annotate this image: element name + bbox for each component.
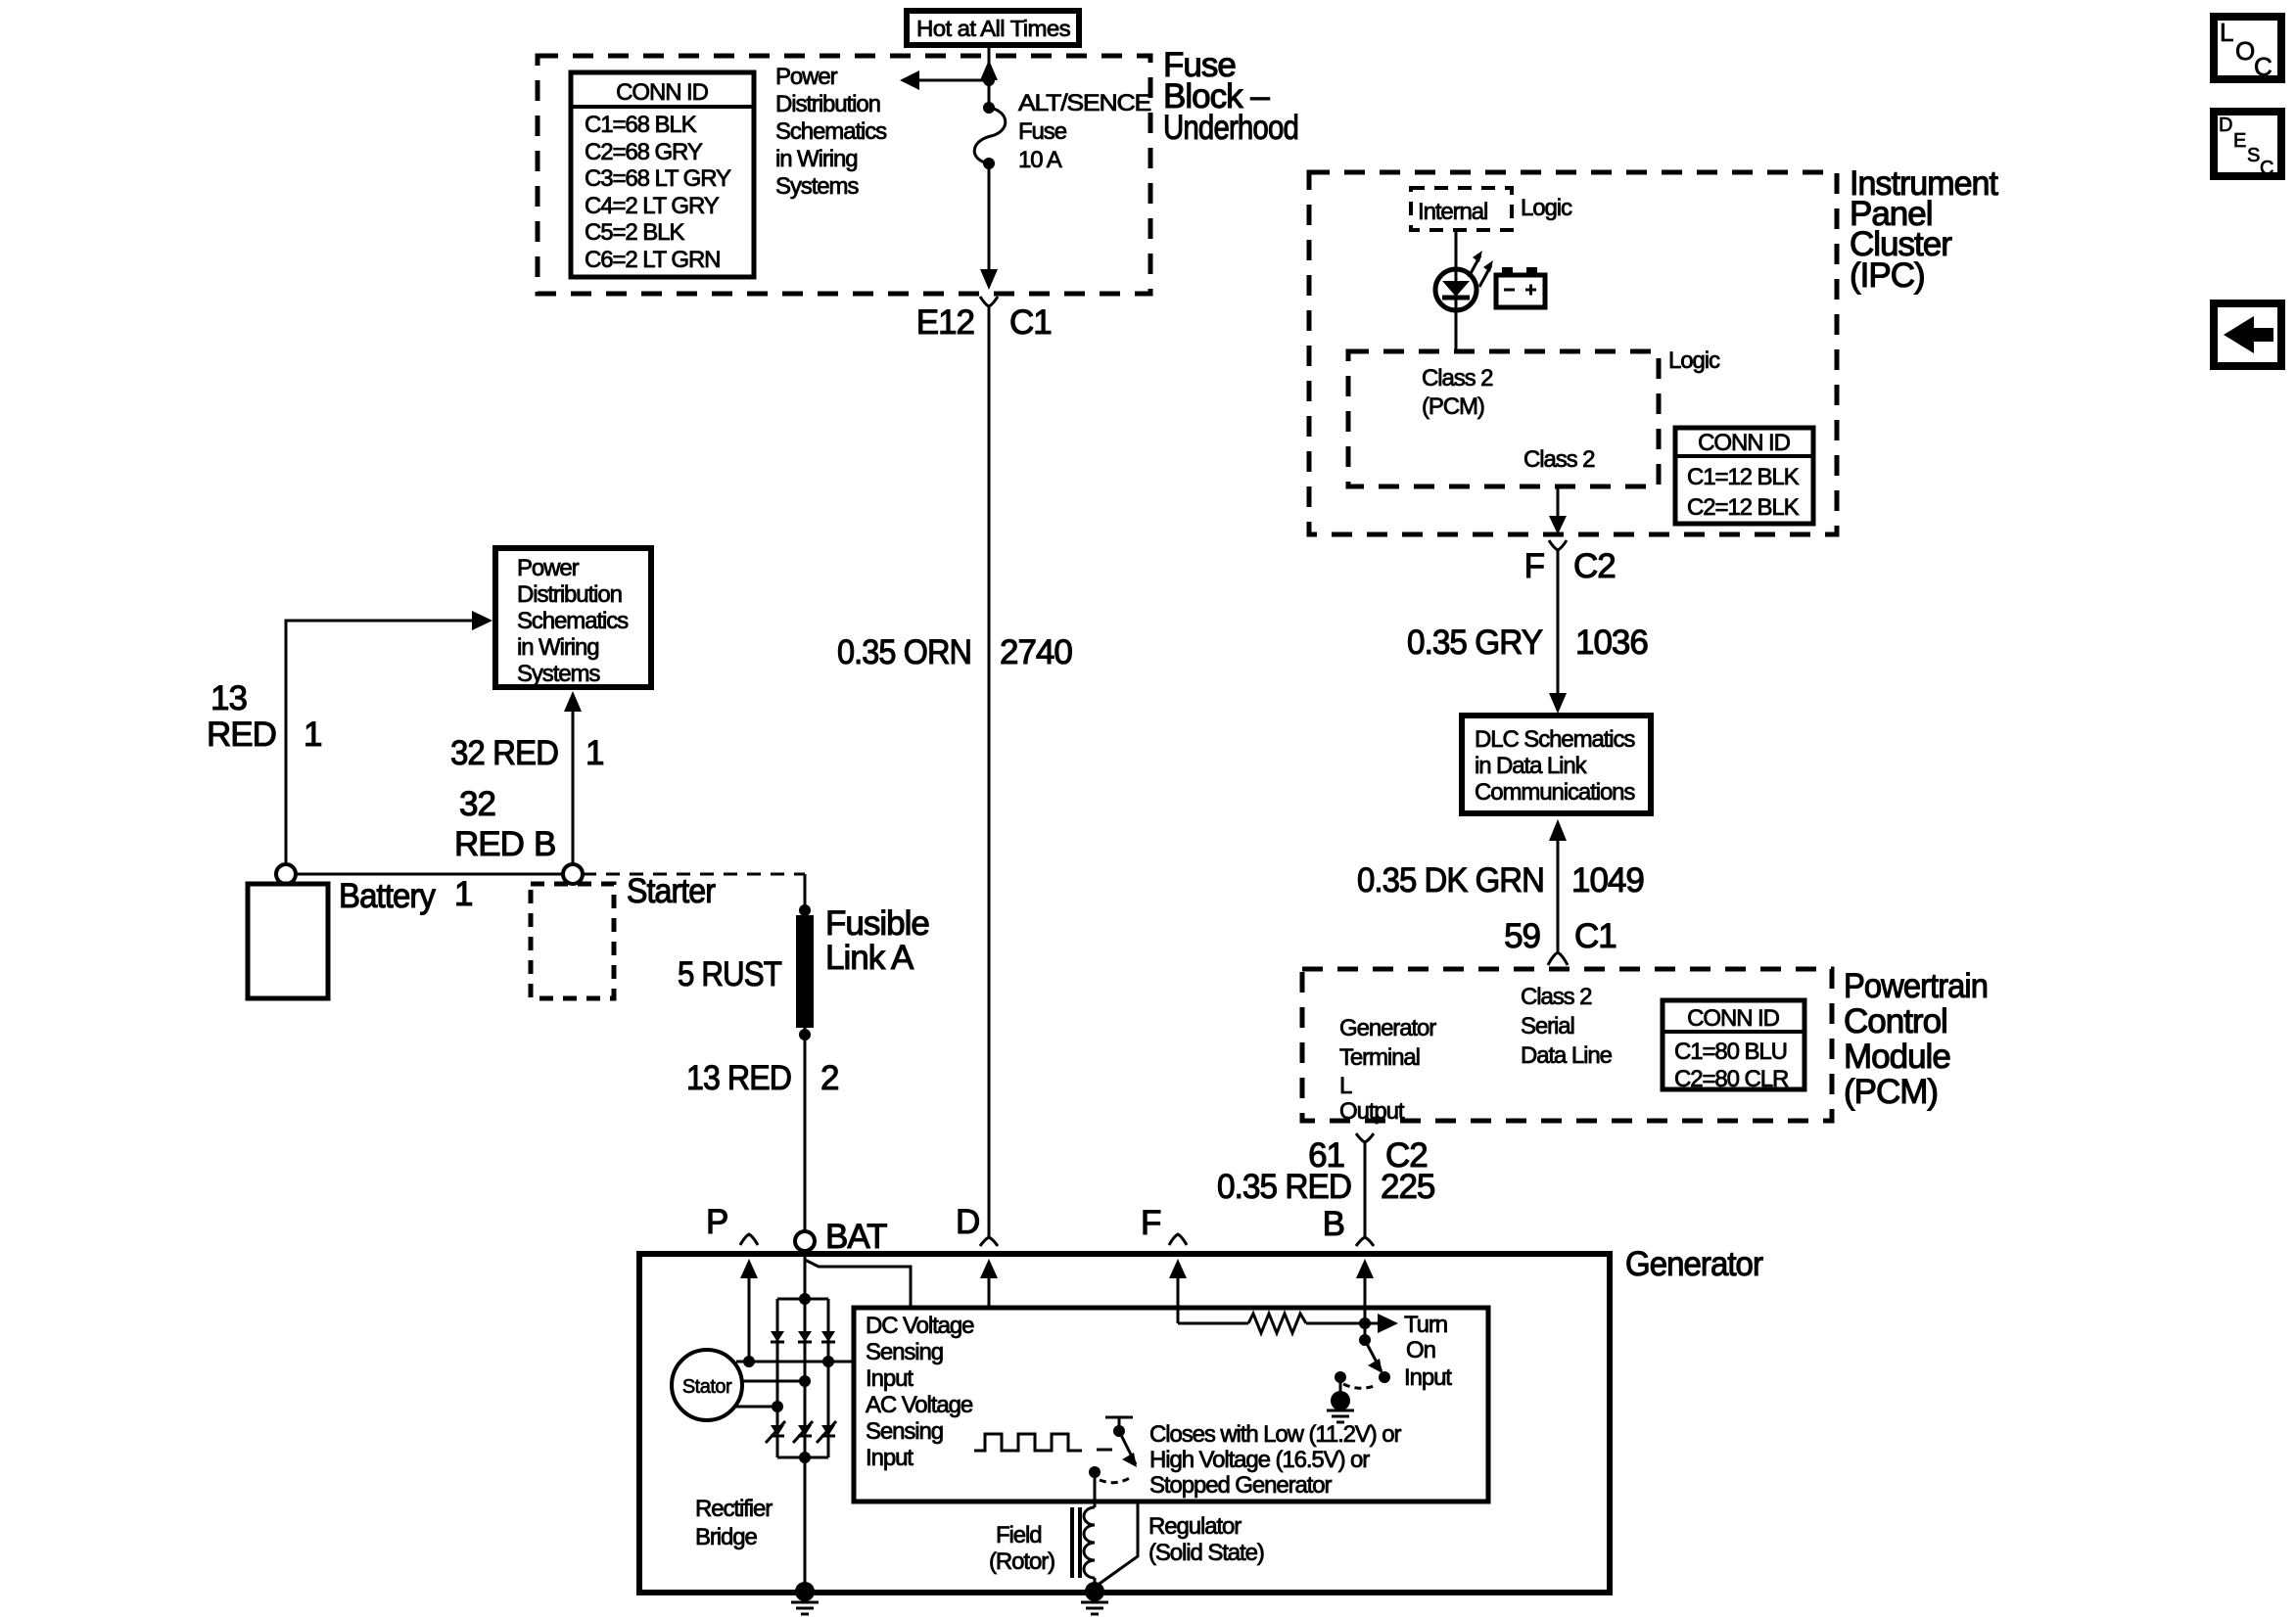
svg-text:Module: Module xyxy=(1844,1038,1950,1076)
svg-text:Communications: Communications xyxy=(1475,779,1635,806)
svg-text:C2=68 GRY: C2=68 GRY xyxy=(585,139,703,165)
comparator switch (closes with low/high voltage) xyxy=(1105,1416,1133,1419)
wire: BAT branch to regulator DC sense xyxy=(805,1260,911,1308)
stator phase wires xyxy=(736,1361,854,1363)
node: B / turn-on junction xyxy=(1359,1317,1371,1329)
CONN ID table (PCM) xyxy=(1663,1000,1804,1092)
svg-text:Class 2: Class 2 xyxy=(1523,446,1595,473)
wire: BAT down to ground xyxy=(804,1251,807,1590)
svg-text:32 RED: 32 RED xyxy=(450,734,558,772)
node: battery positive terminal xyxy=(276,864,296,884)
svg-text:Class 2: Class 2 xyxy=(1422,365,1493,392)
svg-text:(Solid State): (Solid State) xyxy=(1148,1540,1264,1566)
svg-text:S: S xyxy=(2247,145,2260,166)
svg-text:CONN ID: CONN ID xyxy=(1687,1005,1779,1032)
wire label 0.35 RED | 225 xyxy=(1217,1168,1434,1206)
stator xyxy=(672,1350,742,1420)
label closes with xyxy=(1149,1421,1402,1499)
regulator (solid state) box xyxy=(854,1308,1488,1501)
svg-text:C4=2 LT GRY: C4=2 LT GRY xyxy=(585,193,720,219)
label class 2 serial data line xyxy=(1521,984,1613,1069)
svg-text:(PCM): (PCM) xyxy=(1422,393,1484,420)
regulator ground leg xyxy=(1097,1501,1138,1586)
fuse block underhood dashed box xyxy=(538,56,1150,294)
svg-text:0.35 RED: 0.35 RED xyxy=(1217,1168,1351,1206)
svg-text:(Rotor): (Rotor) xyxy=(989,1548,1054,1575)
svg-text:Generator: Generator xyxy=(1625,1245,1763,1283)
svg-text:Distribution: Distribution xyxy=(517,581,622,608)
svg-text:C2: C2 xyxy=(1573,547,1616,585)
svg-text:Stopped Generator: Stopped Generator xyxy=(1149,1472,1333,1499)
svg-text:in Wiring: in Wiring xyxy=(775,146,857,172)
wire: 0.35 DK GRN 1049 (PCM to DLC) xyxy=(1549,819,1567,841)
turn-on switch xyxy=(1359,1334,1371,1346)
svg-text:B: B xyxy=(1323,1205,1344,1243)
svg-text:Link A: Link A xyxy=(825,939,914,977)
label Fusible Link A xyxy=(825,904,929,977)
svg-text:0.35 GRY: 0.35 GRY xyxy=(1407,624,1543,662)
label generator terminal L output xyxy=(1339,1015,1436,1125)
svg-text:Generator: Generator xyxy=(1339,1015,1436,1041)
svg-text:Battery: Battery xyxy=(339,877,436,915)
fuse block label xyxy=(1163,46,1298,147)
svg-text:Logic: Logic xyxy=(1668,347,1720,374)
diodes (top row) xyxy=(771,1331,784,1342)
wire: 0.35 ORN 2740 (fuse to generator D) xyxy=(988,306,991,1236)
node: fuse top junction xyxy=(983,74,995,86)
label: 32 RED B xyxy=(454,785,555,863)
wire: 32 RED 1 (starter junction up to power distribution) xyxy=(572,709,575,864)
battery xyxy=(248,884,328,998)
svg-text:59: 59 xyxy=(1504,917,1540,955)
svg-text:1: 1 xyxy=(586,734,603,772)
svg-text:D: D xyxy=(956,1203,979,1241)
internal dashed box xyxy=(1411,188,1512,230)
connector E12/C1 xyxy=(980,297,998,306)
svg-text:Sensing: Sensing xyxy=(866,1339,943,1365)
CONN ID table (IPC) xyxy=(1675,428,1813,524)
svg-text:10 A: 10 A xyxy=(1018,147,1062,173)
pin label 61 | C2 xyxy=(1308,1136,1428,1175)
power distribution box (left) xyxy=(495,548,651,687)
svg-text:DLC Schematics: DLC Schematics xyxy=(1475,726,1635,753)
svg-text:E: E xyxy=(2233,130,2246,152)
svg-text:Turn: Turn xyxy=(1404,1312,1447,1338)
field (rotor) coil xyxy=(1084,1507,1095,1578)
svg-text:L: L xyxy=(1339,1073,1352,1099)
svg-text:C1=80 BLU: C1=80 BLU xyxy=(1674,1039,1787,1065)
svg-text:BAT: BAT xyxy=(825,1218,887,1256)
svg-text:Powertrain: Powertrain xyxy=(1844,967,1988,1005)
pin label E12 | C1 xyxy=(916,303,1052,342)
svg-text:Input: Input xyxy=(1404,1364,1452,1391)
wire: fusible link feed down to BAT xyxy=(804,874,807,1231)
svg-text:5 RUST: 5 RUST xyxy=(678,955,782,993)
svg-text:1: 1 xyxy=(454,875,472,913)
svg-text:225: 225 xyxy=(1381,1168,1434,1206)
svg-text:CONN ID: CONN ID xyxy=(616,79,708,106)
svg-text:Rectifier: Rectifier xyxy=(695,1496,773,1522)
fusible link A xyxy=(799,904,811,916)
fuse ALT/SENCE 10A (S-curve) xyxy=(974,108,1006,163)
wire: internal to LED xyxy=(1455,230,1458,271)
svg-text:AC Voltage: AC Voltage xyxy=(866,1392,973,1418)
terminal BAT xyxy=(795,1231,815,1251)
svg-text:13: 13 xyxy=(211,679,247,717)
back-arrow icon box xyxy=(2214,303,2281,366)
svg-text:C6=2 LT GRN: C6=2 LT GRN xyxy=(585,247,720,273)
svg-text:Power: Power xyxy=(775,64,838,90)
svg-text:2: 2 xyxy=(820,1059,838,1097)
svg-text:C1: C1 xyxy=(1574,917,1617,955)
svg-text:(IPC): (IPC) xyxy=(1850,256,1925,295)
generator box xyxy=(639,1254,1610,1593)
node: starter junction xyxy=(563,864,583,884)
svg-text:(PCM): (PCM) xyxy=(1844,1073,1938,1111)
svg-text:C5=2 BLK: C5=2 BLK xyxy=(585,219,684,246)
svg-text:in Wiring: in Wiring xyxy=(517,634,598,661)
wire: 0.35 GRY 1036 (IPC to DLC) xyxy=(1557,550,1560,695)
svg-text:Serial: Serial xyxy=(1521,1013,1574,1039)
svg-text:Hot at All Times: Hot at All Times xyxy=(916,16,1070,41)
svg-text:Fuse: Fuse xyxy=(1018,118,1067,145)
wire label 13 RED | 2 xyxy=(686,1059,838,1097)
label rectifier bridge xyxy=(695,1496,773,1550)
terminal B xyxy=(1356,1237,1374,1246)
svg-text:in Data Link: in Data Link xyxy=(1475,753,1588,779)
starter (dashed) xyxy=(531,884,614,998)
svg-text:Sensing: Sensing xyxy=(866,1418,943,1445)
svg-text:C: C xyxy=(2260,158,2273,179)
ground (field/regulator) xyxy=(1085,1582,1104,1601)
ground (rectifier/BAT) xyxy=(795,1582,815,1601)
wire: 0.35 RED 225 (PCM to generator B) xyxy=(1364,1142,1367,1236)
svg-text:Terminal: Terminal xyxy=(1339,1044,1420,1071)
svg-text:C3=68 LT GRY: C3=68 LT GRY xyxy=(585,165,731,192)
svg-text:C1=12 BLK: C1=12 BLK xyxy=(1687,464,1800,490)
svg-text:O: O xyxy=(2235,36,2255,66)
wire: 13 RED 1 (battery to power distribution) xyxy=(286,621,474,864)
svg-text:0.35 ORN: 0.35 ORN xyxy=(837,633,971,671)
wire label 0.35 GRY | 1036 xyxy=(1407,624,1648,662)
svg-text:On: On xyxy=(1406,1337,1435,1363)
svg-text:1036: 1036 xyxy=(1575,624,1648,662)
svg-text:Control: Control xyxy=(1844,1002,1947,1040)
wire: dashed to fusible link xyxy=(583,873,805,876)
svg-text:Input: Input xyxy=(866,1445,914,1471)
svg-text:C1: C1 xyxy=(1009,303,1052,342)
indicator LED xyxy=(1435,251,1493,310)
svg-text:Bridge: Bridge xyxy=(695,1524,758,1550)
DESC icon box xyxy=(2214,112,2281,179)
svg-text:CONN ID: CONN ID xyxy=(1698,430,1790,456)
svg-text:C: C xyxy=(2254,52,2272,81)
wire: fuse to E12 xyxy=(988,163,991,272)
rectifier bridge xyxy=(766,1293,836,1463)
svg-text:Power: Power xyxy=(517,555,580,581)
svg-text:0.35 DK GRN: 0.35 DK GRN xyxy=(1357,861,1544,900)
svg-text:Regulator: Regulator xyxy=(1148,1513,1242,1540)
pin label F | C2 xyxy=(1524,547,1616,585)
connector F/C2 xyxy=(1549,540,1567,550)
svg-text:13 RED: 13 RED xyxy=(686,1059,791,1097)
svg-text:High Voltage (16.5V) or: High Voltage (16.5V) or xyxy=(1149,1447,1370,1473)
svg-text:Starter: Starter xyxy=(627,872,716,910)
DLC schematics box xyxy=(1462,716,1651,813)
wire label 0.35 ORN | 2740 xyxy=(837,633,1072,671)
wire: battery to starter junction xyxy=(296,873,563,876)
svg-text:Input: Input xyxy=(866,1365,914,1392)
wire: class2 to IPC edge xyxy=(1557,486,1560,517)
LED light arrows xyxy=(1469,255,1480,277)
svg-text:Data Line: Data Line xyxy=(1521,1042,1613,1069)
svg-text:Class 2: Class 2 xyxy=(1521,984,1592,1010)
svg-text:C1=68 BLK: C1=68 BLK xyxy=(585,112,697,138)
wire: arrow to power distribution (left) xyxy=(916,79,989,82)
svg-text:B: B xyxy=(534,825,555,863)
svg-text:RED: RED xyxy=(207,716,276,754)
voltage waveform xyxy=(974,1434,1082,1451)
svg-text:Distribution: Distribution xyxy=(775,91,880,117)
Hot at All Times box xyxy=(907,11,1079,45)
svg-text:Field: Field xyxy=(996,1522,1042,1548)
wire label 13 RED | 1 xyxy=(207,679,321,754)
svg-text:ALT/SENCE: ALT/SENCE xyxy=(1018,90,1150,116)
svg-text:C2=12 BLK: C2=12 BLK xyxy=(1687,494,1800,521)
svg-text:F: F xyxy=(1524,547,1544,585)
wire label 0.35 DK GRN | 1049 xyxy=(1357,861,1644,900)
ALT/SENCE fuse label xyxy=(1018,90,1150,173)
svg-text:DC Voltage: DC Voltage xyxy=(866,1313,974,1339)
svg-text:C2=80 CLR: C2=80 CLR xyxy=(1674,1066,1789,1092)
wire: hot feed into fuse block xyxy=(988,45,991,107)
svg-text:F: F xyxy=(1141,1204,1160,1242)
svg-text:2740: 2740 xyxy=(1000,633,1072,671)
class 2 (PCM) dashed box xyxy=(1348,351,1659,486)
connector 61/C2 xyxy=(1356,1133,1374,1142)
chassis ground (turn-on) xyxy=(1331,1391,1350,1410)
svg-text:32: 32 xyxy=(459,785,495,823)
instrument panel cluster dashed box xyxy=(1309,172,1837,534)
svg-text:Systems: Systems xyxy=(517,661,600,687)
svg-text:Fusible: Fusible xyxy=(825,904,929,943)
svg-text:Stator: Stator xyxy=(682,1376,732,1398)
svg-text:P: P xyxy=(706,1203,727,1241)
LOC icon box xyxy=(2214,17,2281,81)
CONN ID table (fuse block) xyxy=(571,72,754,277)
svg-text:D: D xyxy=(2219,115,2232,136)
svg-text:RED: RED xyxy=(454,825,524,863)
F sense line + resistor xyxy=(1178,1322,1248,1325)
battery icon (telltale) xyxy=(1496,267,1545,307)
svg-text:1: 1 xyxy=(304,716,321,754)
zener diodes (bottom row) xyxy=(771,1425,784,1436)
svg-text:Schematics: Schematics xyxy=(775,118,887,145)
svg-text:Logic: Logic xyxy=(1521,195,1572,221)
svg-text:E12: E12 xyxy=(916,303,974,342)
svg-text:Internal: Internal xyxy=(1418,199,1487,225)
svg-text:Systems: Systems xyxy=(775,173,859,200)
power distribution note (fuse block) xyxy=(775,64,887,200)
svg-text:Closes with Low (11.2V) or: Closes with Low (11.2V) or xyxy=(1149,1421,1402,1448)
wire label 32 RED | 1 xyxy=(450,734,603,772)
wire: switch to field coil xyxy=(1094,1472,1097,1507)
svg-text:Underhood: Underhood xyxy=(1163,109,1298,147)
wire: LED to class2 box xyxy=(1455,310,1458,351)
svg-text:1049: 1049 xyxy=(1571,861,1644,900)
pin label 59 | C1 xyxy=(1504,917,1617,955)
connector 59/C1 xyxy=(1548,952,1568,965)
svg-text:L: L xyxy=(2220,18,2233,47)
svg-text:Schematics: Schematics xyxy=(517,608,629,634)
svg-text:Output: Output xyxy=(1339,1098,1405,1125)
powertrain control module dashed box xyxy=(1302,969,1832,1121)
